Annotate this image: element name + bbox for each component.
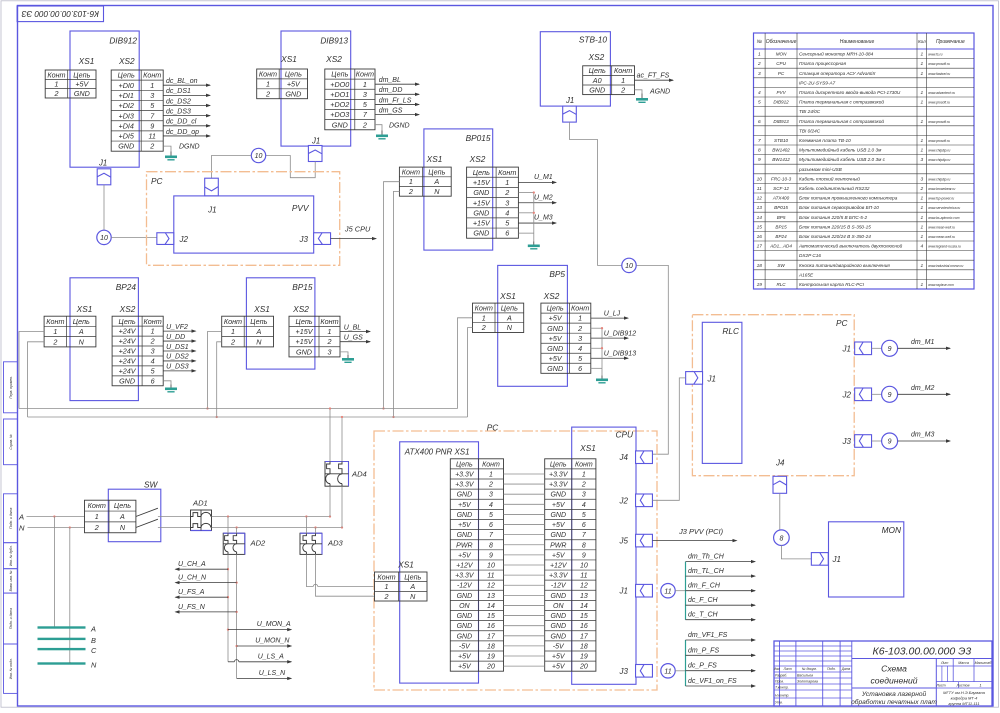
svg-text:dc_F_CH: dc_F_CH <box>688 597 719 604</box>
svg-text:BW1402: BW1402 <box>772 148 790 153</box>
svg-text:ON: ON <box>459 603 470 610</box>
svg-text:№: № <box>757 39 763 45</box>
svg-text:Контрольная карта RLC-PCI: Контрольная карта RLC-PCI <box>799 282 865 287</box>
svg-text:3: 3 <box>582 492 586 499</box>
svg-text:1: 1 <box>95 512 99 521</box>
svg-text:11: 11 <box>757 186 762 192</box>
svg-text:13: 13 <box>487 593 495 600</box>
svg-text:GND: GND <box>457 512 473 519</box>
svg-text:AD2: AD2 <box>250 539 267 548</box>
svg-text:GND: GND <box>457 623 473 630</box>
svg-text:U_BL: U_BL <box>344 324 362 331</box>
svg-text:dm_M2: dm_M2 <box>911 385 934 392</box>
ground DGND (DIB913) <box>376 123 410 140</box>
svg-text:U_DD: U_DD <box>166 334 185 341</box>
wire link 10 to CPU J4 <box>636 265 668 454</box>
svg-text:16: 16 <box>580 623 588 630</box>
svg-text:10: 10 <box>487 563 495 570</box>
svg-text:3: 3 <box>328 347 332 356</box>
svg-text:12: 12 <box>487 583 495 590</box>
circuit breaker AD4 <box>325 462 367 487</box>
svg-text:обработки печатных плат: обработки печатных плат <box>851 698 937 706</box>
table BP24 XS2 <box>112 316 163 386</box>
port J1 (PC) with link circle 9 and arrow dm_M1 <box>842 342 882 355</box>
table CPU XS1 (20-pin) <box>545 459 596 671</box>
svg-text:1: 1 <box>151 327 155 336</box>
svg-text:+5V: +5V <box>287 79 301 88</box>
svg-text:N: N <box>91 661 97 670</box>
svg-text:ATX400: ATX400 <box>772 196 790 201</box>
svg-text:Инв. № дубл.: Инв. № дубл. <box>9 545 13 566</box>
svg-text:DX2P C16: DX2P C16 <box>799 253 821 258</box>
terminal board DIB913 <box>280 31 351 146</box>
left margin box "Инв. № дубл." <box>4 543 18 569</box>
svg-text:J2: J2 <box>619 496 629 505</box>
svg-text:Клеммная плата TB-10: Клеммная плата TB-10 <box>799 138 851 143</box>
svg-text:PVV: PVV <box>292 203 310 213</box>
wire DIB912 GND to DGND <box>163 146 171 151</box>
svg-text:dm_GS: dm_GS <box>379 107 403 114</box>
svg-text:Цепь: Цепь <box>331 70 348 79</box>
junctions AD2 branches <box>227 568 229 570</box>
svg-text:Масштаб: Масштаб <box>975 661 993 665</box>
svg-text:www.prosoft.ru: www.prosoft.ru <box>928 139 950 143</box>
svg-text:2: 2 <box>149 142 154 151</box>
ground (BP24) <box>165 385 177 393</box>
svg-text:XS1: XS1 <box>579 443 596 453</box>
svg-text:ON: ON <box>553 603 564 610</box>
svg-text:J1: J1 <box>832 555 841 564</box>
svg-text:U_M1: U_M1 <box>534 174 553 181</box>
svg-text:N: N <box>19 524 25 533</box>
svg-text:1: 1 <box>489 471 493 478</box>
svg-text:N: N <box>507 323 513 332</box>
signal arrow U_DS3 <box>163 364 196 373</box>
svg-text:www.advantech.ru: www.advantech.ru <box>928 91 955 95</box>
table BP15 XS1 <box>222 316 274 347</box>
svg-text:U_DIB913: U_DIB913 <box>604 350 636 357</box>
svg-text:XS1: XS1 <box>397 560 414 570</box>
svg-text:1: 1 <box>385 582 389 591</box>
svg-text:N: N <box>256 337 262 346</box>
wire SW to AD1 (A) <box>158 516 191 518</box>
power supply unit ATX400 PNR <box>400 442 479 683</box>
reference arrow J3 PVV (PCI) <box>653 527 738 542</box>
PC dash-dot enclosure (control) <box>692 315 854 476</box>
svg-text:TBI 24/0C: TBI 24/0C <box>799 109 821 114</box>
svg-text:17: 17 <box>487 633 496 640</box>
svg-text:+15V: +15V <box>473 198 491 207</box>
svg-text:GND: GND <box>118 142 134 151</box>
svg-text:Цепь: Цепь <box>73 317 90 326</box>
svg-text:3: 3 <box>578 334 582 343</box>
svg-text:3: 3 <box>150 91 154 100</box>
svg-text:1: 1 <box>921 71 924 77</box>
svg-text:+5V: +5V <box>552 552 566 559</box>
svg-text:XS1: XS1 <box>426 154 443 164</box>
svg-text:+5V: +5V <box>458 502 472 509</box>
svg-text:Цепь: Цепь <box>114 501 131 510</box>
svg-text:+15V: +15V <box>296 337 314 346</box>
PC dash-dot enclosure (system unit) <box>374 423 657 691</box>
svg-text:Листов: Листов <box>955 684 969 688</box>
svg-text:www.mean-well.ru: www.mean-well.ru <box>928 235 955 239</box>
svg-text:6: 6 <box>505 229 509 238</box>
svg-text:6: 6 <box>151 376 155 385</box>
signal arrow U_LJ <box>591 310 629 320</box>
svg-text:J5: J5 <box>619 537 629 546</box>
svg-text:AD3: AD3 <box>327 539 344 548</box>
signal arrow U_MON_A (to the right) <box>228 621 292 631</box>
svg-text:+12V: +12V <box>550 563 568 570</box>
signal arrow dm_F_CH <box>686 583 757 593</box>
wire A down to phase bar <box>53 517 55 628</box>
svg-text:15: 15 <box>487 613 495 620</box>
svg-text:GND: GND <box>473 188 489 197</box>
wire AD2 output N down <box>236 554 238 678</box>
svg-text:5: 5 <box>582 512 586 519</box>
svg-text:U_LS_A: U_LS_A <box>258 653 284 660</box>
svg-text:U_CH_A: U_CH_A <box>178 561 206 568</box>
mains wire AD1 to AD4 drop (A) <box>213 516 330 518</box>
svg-text:GND: GND <box>550 613 566 620</box>
svg-text:2: 2 <box>920 186 924 192</box>
svg-text:U_CH_N: U_CH_N <box>178 575 207 582</box>
svg-text:10: 10 <box>580 563 588 570</box>
svg-text:1: 1 <box>921 100 924 106</box>
svg-text:Сенсорный монитор MRH-10-084: Сенсорный монитор MRH-10-084 <box>799 51 874 57</box>
svg-text:SW: SW <box>777 263 785 268</box>
wire AD2 output A down <box>227 554 229 661</box>
svg-text:J3: J3 <box>619 667 629 676</box>
supply bar B <box>38 638 86 640</box>
svg-text:U_MON_N: U_MON_N <box>255 638 290 645</box>
svg-text:BP015: BP015 <box>466 133 491 143</box>
wire link 10 to PVV J1 <box>212 156 252 179</box>
signal arrow U_BL <box>340 324 371 333</box>
monitor MON <box>829 522 904 597</box>
switch contact A <box>136 508 158 516</box>
svg-text:Конт: Конт <box>144 317 162 326</box>
svg-text:+5V: +5V <box>458 664 472 671</box>
svg-text:PC: PC <box>151 176 164 186</box>
svg-text:dm_P_FS: dm_P_FS <box>688 647 719 654</box>
signal arrow U_DD <box>163 334 196 343</box>
svg-text:1: 1 <box>921 138 924 144</box>
svg-text:CPU: CPU <box>615 430 634 440</box>
svg-text:GND: GND <box>457 633 473 640</box>
svg-text:GND: GND <box>550 623 566 630</box>
svg-text:U_LS_N: U_LS_N <box>259 670 286 677</box>
svg-text:1: 1 <box>54 80 58 89</box>
I/O board PVV <box>174 196 314 253</box>
svg-text:+5V: +5V <box>552 654 566 661</box>
svg-text:8: 8 <box>779 535 783 542</box>
svg-text:J1: J1 <box>565 96 574 105</box>
svg-text:Кабель плоский ленточный: Кабель плоский ленточный <box>799 175 860 181</box>
svg-text:dm_TL_CH: dm_TL_CH <box>688 568 725 575</box>
port J3 (PC) with link circle 9 and arrow dm_M3 <box>842 435 882 448</box>
svg-text:Лист: Лист <box>935 684 945 688</box>
svg-text:15: 15 <box>757 224 763 230</box>
left margin box "Подп. и дата" <box>4 593 18 644</box>
svg-text:GND: GND <box>547 344 563 353</box>
svg-text:Взам. инв. №: Взам. инв. № <box>9 570 13 591</box>
svg-text:GND: GND <box>457 593 473 600</box>
svg-text:AD1...AD4: AD1...AD4 <box>769 244 792 249</box>
svg-text:8: 8 <box>489 542 493 549</box>
svg-text:dm_F_CH: dm_F_CH <box>688 583 721 590</box>
connector J3 (CPU) <box>619 665 653 678</box>
svg-text:Примечание: Примечание <box>936 39 965 45</box>
signal arrow ac_FT_FS <box>635 73 675 82</box>
title block (stamp) <box>774 641 993 706</box>
svg-text:9: 9 <box>888 346 892 353</box>
svg-text:B: B <box>91 636 96 645</box>
doc number stamp (rotated 180) <box>17 6 103 22</box>
wire DIB913 GND to DGND <box>375 125 382 131</box>
svg-text:GND: GND <box>550 512 566 519</box>
svg-text:+15V: +15V <box>473 219 491 228</box>
svg-text:dc_DS2: dc_DS2 <box>166 98 191 105</box>
svg-text:Справ. №: Справ. № <box>9 434 13 450</box>
table BP15 XS2 <box>289 316 340 357</box>
svg-text:U_DS2: U_DS2 <box>166 354 189 361</box>
signal arrow dc_F_CH <box>686 597 757 607</box>
svg-text:Конт: Конт <box>356 70 374 79</box>
svg-text:4: 4 <box>582 502 586 509</box>
signal arrow U_DIB912 <box>591 330 636 340</box>
svg-text:Цепь: Цепь <box>250 317 267 326</box>
table STB-10 XS2 <box>583 66 635 95</box>
svg-text:U_VF2: U_VF2 <box>166 324 188 331</box>
svg-text:Васильев: Васильев <box>797 674 813 678</box>
wire BP24 GND to ground <box>163 381 171 385</box>
svg-text:1: 1 <box>921 61 924 67</box>
signal arrow U_CH_N (to the left) <box>175 575 237 585</box>
svg-text:-5V: -5V <box>553 643 565 650</box>
svg-text:+24V: +24V <box>119 327 137 336</box>
svg-text:www.fsp-power.ru: www.fsp-power.ru <box>928 197 954 201</box>
wire AD4 top A to bus A <box>329 409 331 462</box>
table BP5 XS1 <box>473 303 524 332</box>
svg-text:9: 9 <box>888 439 892 446</box>
svg-text:разъемом mini-USB: разъемом mini-USB <box>798 167 842 172</box>
svg-text:GND: GND <box>473 229 489 238</box>
connector J1 (DIB912) <box>97 159 111 185</box>
svg-text:N: N <box>79 337 85 346</box>
svg-text:+3.3V: +3.3V <box>455 482 475 489</box>
svg-text:A: A <box>433 177 439 186</box>
table ATX400 mains XS1 <box>375 572 428 601</box>
svg-text:+24V: +24V <box>119 357 137 366</box>
svg-text:15: 15 <box>580 613 588 620</box>
wire AD4 bottom to mains N <box>341 486 343 527</box>
svg-text:PVV: PVV <box>776 90 786 95</box>
signal arrow dm_VF1_FS <box>686 632 757 642</box>
svg-text:1: 1 <box>150 81 154 90</box>
svg-text:1: 1 <box>758 52 761 58</box>
svg-text:Цепь: Цепь <box>404 572 421 581</box>
svg-text:BP15: BP15 <box>292 282 313 292</box>
svg-text:Конт: Конт <box>402 168 420 177</box>
signal arrow U_DIB913 <box>591 350 636 360</box>
signal arrow dc_DD_cl <box>163 119 211 128</box>
svg-text:+5V: +5V <box>549 334 563 343</box>
ground (BP015) <box>528 242 540 250</box>
circuit breaker AD1 <box>191 499 212 531</box>
parts list table <box>754 33 975 289</box>
svg-text:1: 1 <box>505 178 509 187</box>
svg-text:dm_M3: dm_M3 <box>911 432 934 439</box>
wire BP24 XS1 pin1 to bus A <box>19 332 44 409</box>
servo power supply BP015 <box>424 129 493 250</box>
svg-text:Обозначение: Обозначение <box>766 39 797 45</box>
svg-text:+DI4: +DI4 <box>119 121 134 130</box>
svg-text:3: 3 <box>363 90 367 99</box>
svg-text:Лит: Лит <box>940 661 948 665</box>
left margin box "Подп. и дата" <box>4 494 18 543</box>
svg-text:+DO0: +DO0 <box>330 80 349 89</box>
svg-text:RLC: RLC <box>776 282 786 287</box>
table DIB913 XS1 <box>257 69 308 99</box>
svg-text:группа МТ11-111: группа МТ11-111 <box>948 701 979 706</box>
svg-text:11: 11 <box>580 573 587 580</box>
svg-text:XS2: XS2 <box>588 52 605 62</box>
signal arrow dm_TL_CH <box>686 568 757 578</box>
svg-text:BP15: BP15 <box>775 224 787 229</box>
svg-text:Конт: Конт <box>377 572 395 581</box>
svg-text:A: A <box>78 327 84 336</box>
svg-text:A: A <box>119 512 125 521</box>
svg-text:Цепь: Цепь <box>118 71 135 80</box>
svg-text:DIB913: DIB913 <box>320 36 348 46</box>
svg-text:Подп. и дата: Подп. и дата <box>9 608 13 629</box>
svg-text:GND: GND <box>473 208 489 217</box>
connector J5 (CPU) <box>619 534 653 547</box>
svg-text:2: 2 <box>488 482 493 489</box>
connector J1 (RLC) <box>686 372 703 385</box>
svg-text:dc_DS3: dc_DS3 <box>166 108 191 115</box>
svg-text:AD4: AD4 <box>351 470 367 479</box>
svg-text:4: 4 <box>151 357 155 366</box>
controller card RLC <box>702 322 742 463</box>
svg-text:dc_P_FS: dc_P_FS <box>688 663 717 670</box>
svg-text:dc_BL_on: dc_BL_on <box>166 78 198 85</box>
svg-text:Конт: Конт <box>575 461 593 468</box>
wire BP5 XS1 pin1 to bus A <box>458 318 473 409</box>
svg-text:J1: J1 <box>707 375 716 384</box>
svg-text:14: 14 <box>487 603 495 610</box>
signal arrow dm_GS <box>375 107 420 116</box>
terminal board STB-10 <box>540 32 610 106</box>
svg-text:XS1: XS1 <box>253 304 270 314</box>
svg-text:RLC: RLC <box>722 326 740 336</box>
svg-text:TBI 0/24C: TBI 0/24C <box>799 128 821 133</box>
signal arrow dm_DD <box>375 87 420 96</box>
svg-text:XS2: XS2 <box>292 304 309 314</box>
svg-text:9: 9 <box>758 157 761 163</box>
svg-text:Лист: Лист <box>783 667 793 671</box>
svg-text:J3: J3 <box>842 437 852 446</box>
svg-text:GND: GND <box>119 376 135 385</box>
svg-text:U_DS1: U_DS1 <box>166 344 189 351</box>
svg-text:GND: GND <box>550 593 566 600</box>
signal arrow U_M1 <box>518 174 557 184</box>
svg-text:U_DIB912: U_DIB912 <box>604 330 636 337</box>
signal arrow dc_P_FS <box>686 663 757 673</box>
svg-text:PC: PC <box>487 423 500 433</box>
supply bar A <box>38 626 86 628</box>
connector J1 (DIB913) <box>308 137 322 162</box>
svg-text:4: 4 <box>505 208 509 217</box>
svg-text:6: 6 <box>758 119 761 125</box>
svg-text:ac_FT_FS: ac_FT_FS <box>637 73 670 80</box>
junction taps on mains <box>227 515 229 517</box>
svg-text:Конт: Конт <box>475 304 493 313</box>
svg-text:Цепь: Цепь <box>456 461 473 468</box>
svg-text:Станция оператора АСУ AdvantiX: Станция оператора АСУ AdvantiX <box>799 71 876 76</box>
svg-text:18: 18 <box>757 263 763 269</box>
wire AD2 input N <box>236 528 238 534</box>
svg-text:19: 19 <box>487 654 495 661</box>
svg-text:U_M3: U_M3 <box>534 215 553 222</box>
svg-text:14: 14 <box>580 603 588 610</box>
svg-text:+DO1: +DO1 <box>330 90 349 99</box>
svg-text:1: 1 <box>921 282 924 288</box>
table DIB912 XS2 <box>111 70 163 151</box>
svg-text:11: 11 <box>664 668 671 675</box>
svg-text:XS2: XS2 <box>119 304 136 314</box>
svg-text:DIB913: DIB913 <box>773 119 789 124</box>
svg-text:1: 1 <box>621 76 625 85</box>
svg-text:J1: J1 <box>98 159 107 168</box>
svg-text:2: 2 <box>230 337 235 346</box>
wire AD3 output A to ATX400 XS1 <box>306 554 313 586</box>
svg-text:dc_DD_op: dc_DD_op <box>166 129 199 136</box>
junction BP015 taps <box>382 407 384 409</box>
signal arrow U_M2 <box>518 194 557 204</box>
svg-text:-12V: -12V <box>551 583 567 590</box>
svg-text:18: 18 <box>580 643 588 650</box>
power supply BP5 <box>498 265 568 386</box>
table BP24 XS1 <box>44 316 96 347</box>
table BP5 XS2 <box>541 303 591 373</box>
svg-text:+DI2: +DI2 <box>119 101 134 110</box>
ground DGND (DIB912) <box>165 144 200 161</box>
signal arrow dc_DS3 <box>163 108 211 117</box>
svg-text:+3.3V: +3.3V <box>455 471 475 478</box>
svg-text:Плата дискретного ввода-вывода: Плата дискретного ввода-вывода PCI-1730U <box>799 90 901 95</box>
svg-text:1: 1 <box>921 224 924 230</box>
svg-text:U_FS_A: U_FS_A <box>178 589 205 596</box>
svg-text:N: N <box>410 592 416 601</box>
svg-text:2: 2 <box>53 89 58 98</box>
svg-text:SCF-12: SCF-12 <box>773 186 789 191</box>
svg-text:20: 20 <box>579 664 588 671</box>
svg-text:Разраб.: Разраб. <box>775 674 787 678</box>
svg-text:Мультимедийный кабель USB 2.0: Мультимедийный кабель USB 2.0 3м с <box>799 156 886 162</box>
power supply BP24 <box>70 278 138 401</box>
svg-text:1: 1 <box>409 177 413 186</box>
svg-text:www.chipdip.ru: www.chipdip.ru <box>928 158 950 162</box>
signal arrow dm_BL <box>375 77 420 86</box>
table BP015 XS2 <box>467 167 519 238</box>
svg-text:+12V: +12V <box>456 563 474 570</box>
wire PC J4 to circle 8 <box>779 493 781 530</box>
svg-text:BP24: BP24 <box>116 282 137 292</box>
signal arrow dc_DS1 <box>163 88 211 97</box>
